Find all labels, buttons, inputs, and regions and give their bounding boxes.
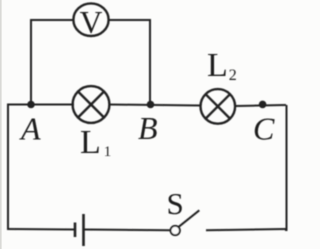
voltmeter V bbox=[73, 3, 108, 40]
lamp L1 bbox=[73, 86, 110, 123]
lamp L2 bbox=[201, 89, 236, 124]
switch S bbox=[171, 210, 200, 235]
wire: right vertical side bbox=[285, 105, 287, 230]
wire: voltmeter branch right vertical (top-right corner down to node B) bbox=[149, 19, 151, 105]
svg-text:V: V bbox=[80, 5, 103, 40]
wire: left vertical side bbox=[7, 104, 9, 230]
wire: bottom segment from switch to right corner bbox=[206, 229, 287, 230]
svg-text:C: C bbox=[253, 111, 275, 147]
svg-text:S: S bbox=[167, 186, 184, 221]
node A bbox=[27, 101, 35, 109]
wire: top horizontal segment right of voltmeter bbox=[109, 19, 151, 21]
wire: bottom segment from battery to switch bbox=[84, 229, 171, 232]
svg-text:B: B bbox=[138, 110, 158, 146]
battery BT1 bbox=[75, 214, 84, 246]
svg-text:A: A bbox=[19, 111, 41, 147]
wire: voltmeter branch left vertical (node A up to top-left corner) bbox=[30, 20, 32, 105]
node B bbox=[147, 101, 155, 109]
wire: bottom segment from left corner to battery bbox=[7, 228, 75, 231]
wire: main wire from lamp L2 through node C to top-right corner bbox=[236, 105, 287, 106]
wire: main wire from left corner through node A to lamp L1 bbox=[8, 104, 74, 106]
wire: top horizontal segment left of voltmeter bbox=[30, 19, 74, 21]
wire: main wire from lamp L1 through node B to lamp L2 bbox=[109, 105, 201, 106]
node C bbox=[259, 101, 267, 109]
